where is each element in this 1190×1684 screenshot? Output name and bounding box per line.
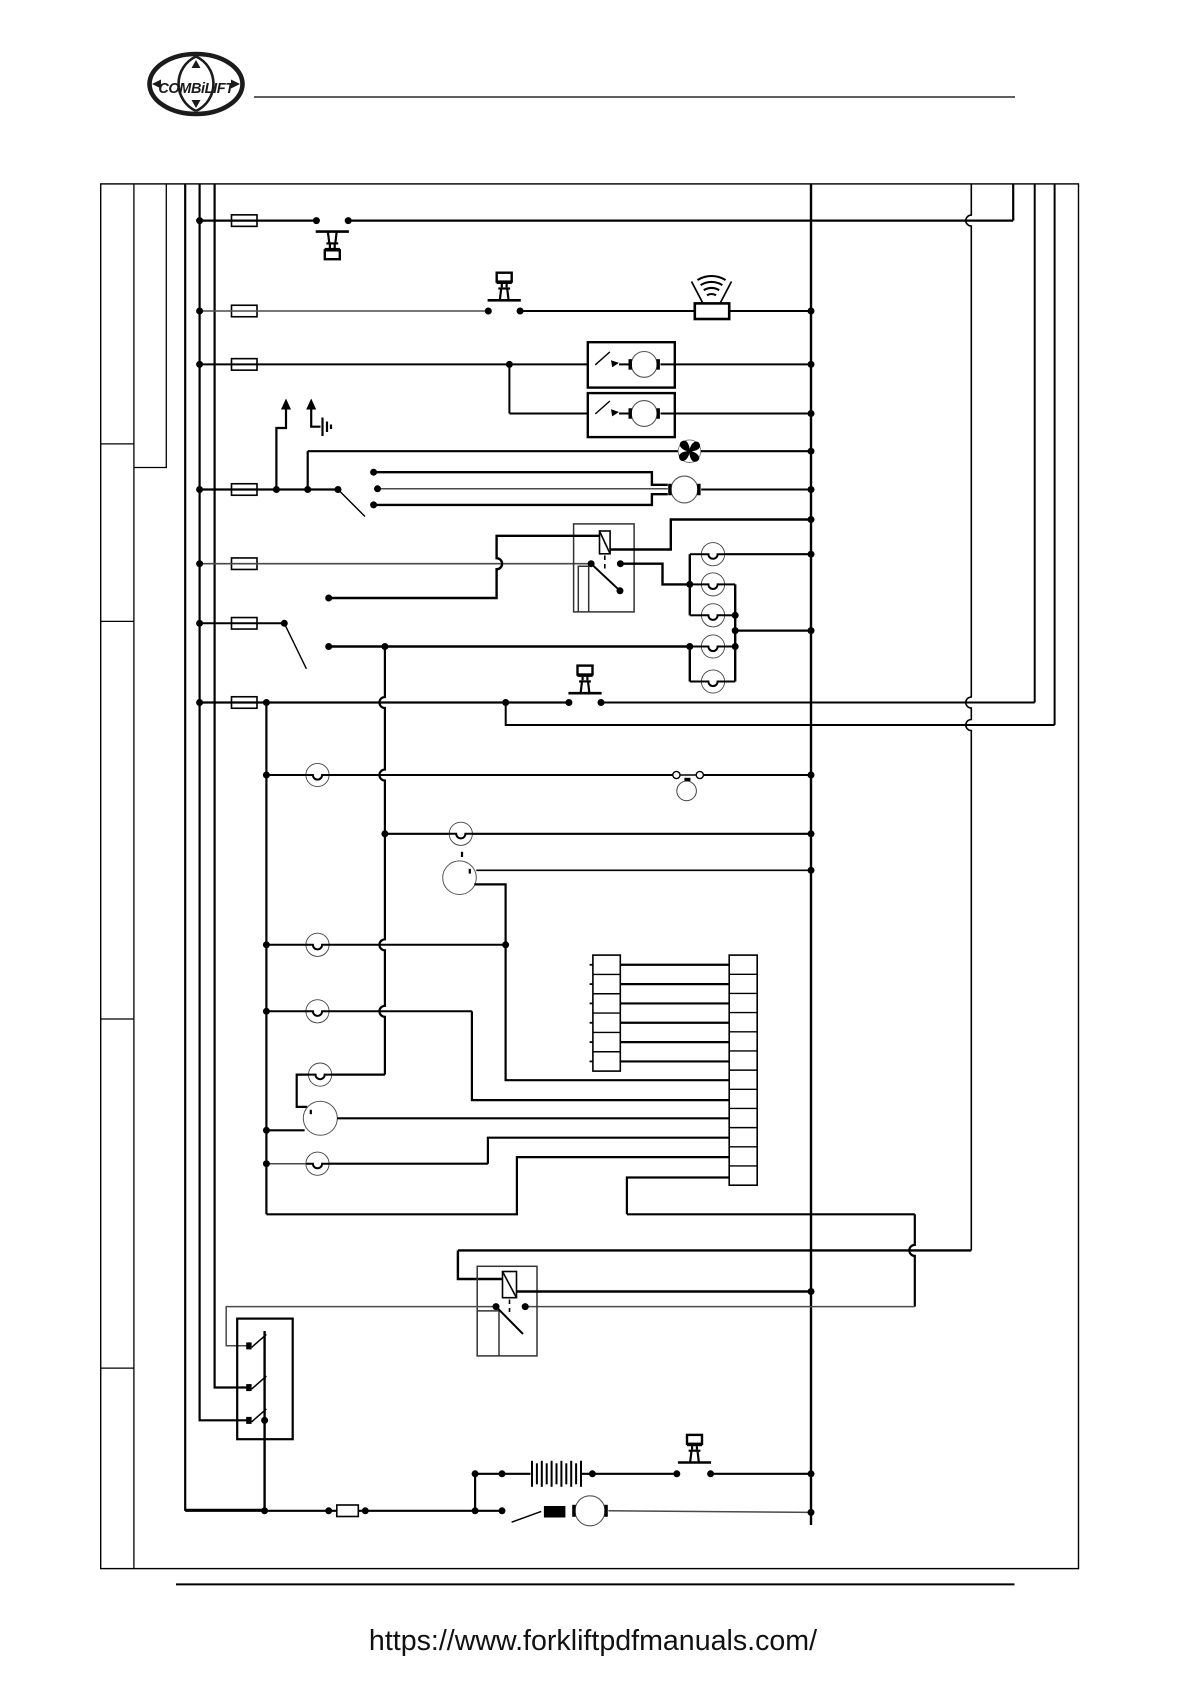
relay K1 blade: [591, 564, 620, 591]
bus B1 (fuse feed): [200, 184, 248, 1420]
right vertical drop x1013: [1012, 184, 1014, 221]
wire G1 right: [476, 869, 811, 871]
wire K2 to key switch: [226, 1307, 496, 1346]
frame inner line A: [133, 184, 135, 1569]
gauge G2: [303, 1101, 337, 1135]
wire K1 coil to bus: [610, 520, 811, 550]
lamp cluster left rail upper: [689, 554, 691, 615]
gauge G2 tick: [310, 1110, 312, 1114]
lamp Lb: [306, 933, 329, 956]
wire bottom row main: [185, 1510, 475, 1512]
wire row-le to connector: [488, 1138, 729, 1164]
wire G1 to connector: [506, 945, 730, 1080]
frame rung 1: [101, 443, 134, 445]
frame rung 2: [101, 620, 134, 622]
wire row-la left: [266, 774, 306, 776]
connector block J2 (12-way): [729, 955, 757, 1185]
wire row-la mid: [329, 774, 673, 776]
connector J1-J2 wires: [620, 964, 729, 966]
wire J2 pin12 out: [627, 1178, 729, 1215]
fuse F3: [232, 359, 258, 371]
wire glow row right: [711, 1473, 811, 1475]
lamp L5: [701, 670, 724, 693]
relay K1 outline: [574, 524, 635, 612]
relay K2 coil: [503, 1272, 517, 1298]
switch blade S4: [338, 490, 365, 517]
key switch common bar: [263, 1331, 265, 1511]
right vertical net V971: [966, 184, 971, 1251]
wire row7 right: [601, 702, 1035, 704]
right vertical net x1055: [1054, 184, 1056, 725]
wire K1 contact out: [620, 564, 689, 585]
wire row7 left: [200, 701, 569, 703]
key switch contact c2: [246, 1384, 251, 1391]
pushbutton S7: [568, 666, 601, 694]
wire row3-row3b link: [508, 364, 510, 413]
wire glow row left: [475, 1473, 530, 1475]
wire row2 left: [200, 310, 489, 312]
wire row4 to fan row: [307, 451, 309, 489]
wire row3: [200, 363, 588, 365]
fuse F6: [232, 618, 258, 630]
wire row-lb: [266, 944, 306, 946]
glow plug coil R1: [531, 1461, 533, 1487]
right vertical net x1035: [1034, 184, 1036, 703]
svg-text:https://www.forkliftpdfmanuals: https://www.forkliftpdfmanuals.com/: [369, 1625, 817, 1657]
wire W1-right: [627, 1213, 915, 1215]
frame inner line B: [134, 184, 166, 468]
relay K1 inner partition: [578, 566, 588, 612]
lamp L1: [701, 543, 724, 566]
wire glow row mid: [582, 1473, 677, 1475]
start solenoid block: [544, 1506, 566, 1518]
bus B0 (left supply): [185, 184, 264, 1510]
lamp cluster right stubs: [725, 553, 811, 555]
fuse F4: [232, 484, 258, 496]
wire glow link: [474, 1474, 476, 1511]
relay K2 inner partition: [477, 1311, 499, 1356]
fuse F5: [232, 558, 258, 570]
switch blade S6: [284, 623, 306, 669]
motor box U2 outline: [588, 393, 675, 437]
net V1 vertical: [379, 647, 385, 1075]
wire row5: [200, 563, 591, 565]
lamp Ld: [309, 1063, 332, 1086]
wire start row right: [608, 1511, 811, 1513]
arrow A2 with chassis ground: [311, 410, 320, 427]
motor box U1 switch: [595, 352, 610, 365]
wire row3b right: [661, 413, 812, 415]
wire row7b: [506, 703, 1055, 726]
wire row-la right: [703, 774, 811, 776]
wire W1-left to connector: [266, 1157, 729, 1214]
right bus: [810, 184, 812, 1525]
lamp cluster left stubs: [690, 553, 702, 555]
wire row1 left: [200, 220, 317, 222]
wire row-lc to connector: [472, 1011, 729, 1100]
starter feed bottom: [374, 494, 668, 505]
fuse F7: [232, 697, 258, 709]
wire W2: [458, 1249, 971, 1251]
fuse F2: [232, 305, 258, 317]
wire row2 right: [729, 310, 811, 312]
wire start row mid: [475, 1510, 502, 1512]
relay K1 coil dashed link: [604, 556, 606, 573]
fuse F1: [232, 215, 258, 227]
wire row-ld2: [385, 833, 449, 835]
start switch blade: [512, 1511, 542, 1522]
frame rung 4: [101, 1367, 134, 1369]
relay K2 blade: [496, 1307, 523, 1334]
key switch contact c1: [246, 1342, 251, 1349]
svg-text:COMBiLIFT: COMBiLIFT: [158, 81, 235, 97]
left distribution vertical: [265, 703, 267, 1215]
fuse F8: [337, 1505, 359, 1517]
net x914 to K2 contact: [909, 1214, 915, 1306]
wire fan row left: [308, 450, 679, 452]
lamp cluster right rail: [734, 584, 736, 681]
pushbutton S9: [678, 1435, 711, 1463]
bus B2: [215, 184, 248, 1388]
lamp cluster left rail lower: [689, 647, 691, 682]
frame underline: [176, 1583, 1015, 1585]
lamp L3: [701, 604, 724, 627]
starter feed mid: [378, 488, 668, 490]
lamp L4: [701, 635, 724, 658]
relay K2 dashed link: [509, 1300, 511, 1313]
arrow A1 (to other sheet): [276, 410, 286, 490]
wire K2 coil to bus: [517, 1290, 812, 1292]
junction dots: [196, 217, 203, 224]
starter motor M3: [671, 476, 698, 503]
thermo switch S8: [673, 771, 680, 778]
wire row3 right: [661, 363, 812, 365]
wire lamp group feed: [329, 645, 690, 647]
wire cluster to bus: [735, 629, 811, 631]
starter motor M5: [575, 1496, 605, 1526]
wire row-ld right: [332, 1073, 385, 1075]
motor M1: [631, 352, 657, 378]
wire row1 right: [348, 220, 1013, 222]
key switch box outline: [237, 1319, 293, 1440]
lamp Lc: [306, 1000, 329, 1023]
relay K1 coil: [600, 531, 611, 554]
pushbutton S2 (sender switch): [488, 273, 521, 301]
lamp La: [306, 763, 329, 786]
connector block J1 (6-way): [593, 955, 620, 1071]
lamp Lg: [449, 822, 472, 845]
lamp L2: [701, 573, 724, 596]
wire starter to bus: [701, 489, 811, 491]
key switch contact c3: [246, 1417, 251, 1424]
relay K2 outline: [477, 1266, 537, 1356]
wire row6: [200, 622, 285, 624]
wire row-ld2 right: [472, 833, 811, 835]
wire row2 mid: [520, 310, 695, 312]
wire fan row right: [701, 450, 811, 452]
motor box U2 switch: [595, 401, 610, 414]
motor box U1 outline: [588, 342, 675, 387]
gauge G1 link dash: [461, 852, 463, 857]
frame outer border: [101, 184, 1079, 1569]
wire row-ld left: [297, 1075, 309, 1107]
header rule: [254, 96, 1015, 98]
wire G2 to connector: [337, 1117, 729, 1119]
wire A (coil K1 feed): [329, 536, 600, 598]
starter feed top: [374, 472, 668, 485]
wire row-le: [266, 1163, 306, 1165]
frame rung 3: [101, 1018, 134, 1020]
Combilift logo: [150, 54, 243, 114]
wire K2 coil feed: [458, 1250, 503, 1279]
wire G1 down: [474, 884, 505, 944]
wire row-lc: [266, 1010, 306, 1012]
siren/buzzer H1: [695, 303, 729, 319]
motor M2: [631, 401, 657, 427]
wire row3b: [509, 413, 587, 415]
wire G2 lower-left: [266, 1129, 304, 1131]
pushbutton S1 (horn button): [316, 232, 349, 260]
lamp Le: [306, 1152, 329, 1175]
gauge G1: [443, 861, 477, 895]
fan M4: [678, 440, 701, 463]
wire row4: [200, 488, 338, 490]
